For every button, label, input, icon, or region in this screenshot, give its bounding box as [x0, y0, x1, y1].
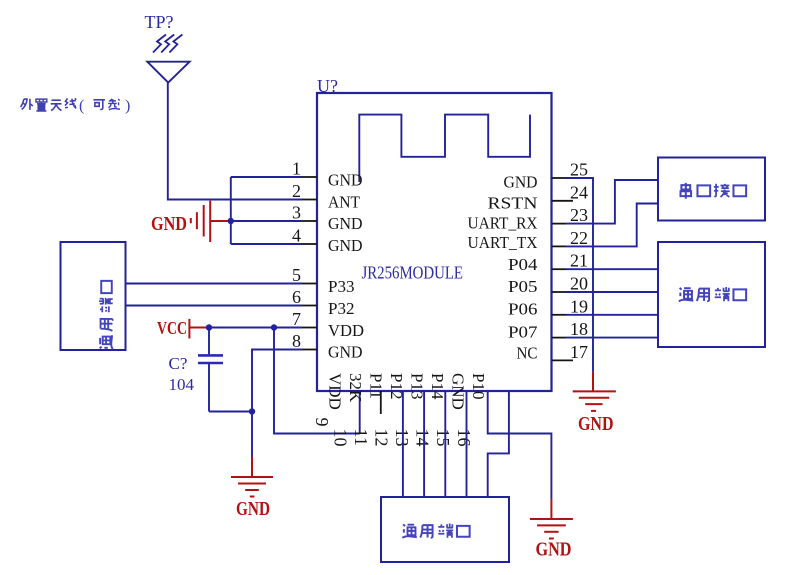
svg-text:17: 17: [570, 342, 588, 362]
pin 10 stub: [380, 391, 382, 414]
svg-text:NC: NC: [517, 344, 538, 363]
svg-text:): ): [125, 98, 130, 115]
svg-text:23: 23: [570, 205, 588, 225]
svg-text:P11: P11: [366, 373, 385, 399]
svg-text:18: 18: [570, 319, 588, 339]
svg-text:VCC: VCC: [157, 318, 187, 338]
svg-text:2: 2: [292, 181, 301, 201]
svg-text:9: 9: [312, 418, 332, 427]
svg-text:16: 16: [454, 429, 474, 447]
svg-text:GND: GND: [504, 173, 538, 192]
svg-text:P32: P32: [328, 299, 355, 318]
wire pin5 from left box: [126, 283, 303, 285]
antenna TP? triangle: [147, 62, 189, 83]
svg-text:12: 12: [372, 429, 392, 447]
wire antenna feed down to ANT row: [168, 83, 302, 200]
antenna meander trace: [359, 115, 530, 182]
pin 18: [552, 337, 567, 339]
pin 25: [552, 177, 567, 179]
wire pin12 to bottom box: [423, 391, 425, 497]
pin 7: [302, 327, 317, 329]
wire pin19 P06: [566, 314, 658, 316]
svg-text:P14: P14: [428, 373, 447, 400]
text external antenna (optional): [21, 98, 131, 115]
pin 23: [552, 223, 567, 225]
antenna radiation squiggles: [153, 35, 182, 53]
svg-text:P07: P07: [508, 323, 538, 342]
wire pin8 branch: [252, 350, 302, 412]
pin 8: [302, 349, 317, 351]
svg-text:GND: GND: [328, 343, 363, 362]
svg-text:P10: P10: [469, 373, 488, 399]
svg-text:24: 24: [570, 182, 588, 202]
capacitor C? leads: [208, 328, 210, 356]
svg-text:UART_RX: UART_RX: [468, 214, 538, 233]
svg-text:10: 10: [331, 429, 351, 447]
wire pin23 UART_RX to serial box: [566, 180, 658, 224]
pin 6: [302, 305, 317, 307]
capacitor C? plates: [198, 354, 223, 357]
svg-text:JR256MODULE: JR256MODULE: [362, 263, 464, 283]
left port box rotated text: [99, 281, 113, 349]
wire pin20 P05: [566, 291, 658, 293]
wire pin22 UART_TX to serial box: [566, 204, 658, 247]
svg-text:RSTN: RSTN: [488, 194, 538, 213]
wire pin1: [231, 176, 302, 178]
wire cap bottom to gnd node: [209, 411, 252, 413]
svg-text:8: 8: [292, 331, 301, 351]
svg-text:14: 14: [413, 429, 433, 447]
wire pin15 GND: [488, 391, 552, 499]
wire pin11 to bottom box: [402, 391, 404, 497]
svg-text:GND: GND: [328, 236, 363, 255]
svg-text:15: 15: [433, 429, 453, 447]
svg-text:11: 11: [351, 429, 371, 446]
wire pin16 jog to bottom box: [488, 391, 509, 497]
wire pin13 to bottom box: [444, 391, 446, 497]
left port box: [61, 242, 126, 350]
svg-text:UART_TX: UART_TX: [468, 233, 538, 252]
wire pin9: [359, 391, 361, 434]
svg-text:C?: C?: [169, 354, 188, 373]
wire pin18 P07: [566, 337, 658, 339]
svg-text:21: 21: [570, 251, 588, 271]
wire pin3: [231, 220, 302, 222]
pin 19: [552, 314, 567, 316]
svg-text:7: 7: [292, 309, 301, 329]
svg-text:P04: P04: [508, 255, 538, 274]
pin 22: [552, 245, 567, 247]
ground GND (left, rotated): [191, 201, 231, 242]
IC U? module body: [317, 93, 552, 391]
node pin7 branch junction: [271, 324, 277, 330]
svg-text:GND: GND: [578, 413, 614, 435]
svg-text:P05: P05: [508, 277, 538, 296]
svg-text:104: 104: [169, 375, 195, 394]
pin 20: [552, 291, 567, 293]
svg-text:GND: GND: [151, 213, 187, 235]
bottom port box text: [402, 524, 469, 538]
pin 5: [302, 283, 317, 285]
pin 4: [302, 243, 317, 245]
wire VCC to pin7: [207, 327, 302, 329]
svg-text:TP?: TP?: [145, 12, 174, 32]
svg-text:22: 22: [570, 228, 588, 248]
wire pin6 from left box: [126, 305, 303, 307]
svg-text:GND: GND: [236, 498, 270, 520]
node cap/pin8/gnd junction: [249, 408, 255, 414]
svg-text:VDD: VDD: [325, 373, 344, 410]
wire pin14 to bottom box: [466, 391, 468, 497]
serial port box text: [681, 183, 747, 199]
node VCC cap junction: [206, 324, 212, 330]
svg-text:P33: P33: [328, 277, 355, 296]
wire pin25 GND: [566, 178, 593, 372]
svg-text:3: 3: [292, 203, 301, 223]
pin 17: [552, 359, 574, 361]
bottom port box: [381, 497, 509, 562]
svg-text:20: 20: [570, 274, 588, 294]
svg-text:32K: 32K: [346, 373, 365, 403]
svg-text:19: 19: [570, 296, 588, 316]
svg-text:GND: GND: [328, 171, 363, 190]
svg-text:ANT: ANT: [328, 193, 361, 212]
pin 3: [302, 220, 317, 222]
ground GND (bottom left): [231, 457, 273, 497]
wire gnd stem: [251, 412, 253, 458]
svg-text:5: 5: [292, 265, 301, 285]
general port box right text: [679, 287, 746, 301]
node junction pins1-3-4 bus: [228, 218, 234, 224]
pin 2: [302, 199, 317, 201]
general port box right: [658, 242, 765, 347]
svg-text:GND: GND: [448, 373, 467, 410]
ground GND (right): [573, 372, 616, 411]
svg-text:25: 25: [570, 160, 588, 180]
svg-text:P06: P06: [508, 300, 538, 319]
svg-text:(: (: [79, 98, 84, 115]
pin 1: [302, 176, 317, 178]
wire pin21 P04: [566, 268, 658, 270]
svg-text:GND: GND: [328, 214, 363, 233]
wire gnd bus vertical: [230, 177, 232, 244]
pin 24: [552, 200, 574, 202]
wire pin4: [231, 243, 302, 245]
svg-text:1: 1: [292, 159, 301, 179]
svg-text:4: 4: [292, 226, 301, 246]
svg-text:VDD: VDD: [328, 321, 364, 340]
pin 21: [552, 268, 567, 270]
svg-text:U?: U?: [317, 76, 338, 96]
ground GND (bottom middle-right): [530, 499, 573, 539]
wire pin7 to pin9 VDD: [274, 328, 360, 434]
serial port box: [658, 158, 765, 221]
svg-text:GND: GND: [536, 539, 572, 561]
svg-text:6: 6: [292, 287, 301, 307]
